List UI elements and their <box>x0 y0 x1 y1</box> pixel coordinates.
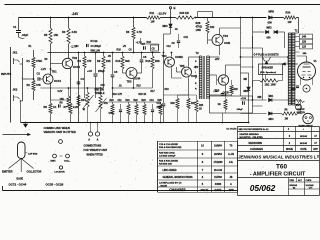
svg-text:MAINS INPUT: MAINS INPUT <box>299 125 314 128</box>
svg-text:C10: C10 <box>101 85 106 87</box>
svg-text:-2V: -2V <box>123 46 127 48</box>
svg-text:05/062: 05/062 <box>250 183 276 193</box>
svg-text:OC44: OC44 <box>73 65 80 69</box>
svg-text:R23: R23 <box>142 100 147 102</box>
svg-text:470Ω: 470Ω <box>196 25 202 29</box>
svg-text:C1: C1 <box>13 25 17 29</box>
svg-text:T60: T60 <box>276 164 287 171</box>
svg-text:OC81D: OC81D <box>175 56 183 59</box>
svg-text:C12: C12 <box>167 46 172 48</box>
svg-text:ISSUE: ISSUE <box>201 188 209 192</box>
svg-text:A.J.N: A.J.N <box>228 153 234 156</box>
svg-text:R23 1K: R23 1K <box>139 94 147 96</box>
svg-text:R13: R13 <box>146 59 151 63</box>
svg-text:O-P PLUG & SOCKETS: O-P PLUG & SOCKETS <box>254 55 280 57</box>
svg-text:C5: C5 <box>114 70 118 74</box>
svg-text:TS: TS <box>230 146 233 148</box>
svg-text:26-9-63: 26-9-63 <box>214 170 223 172</box>
svg-text:3.3K: 3.3K <box>72 30 78 34</box>
svg-text:DATE: DATE <box>300 148 307 151</box>
svg-text:FOR 'VIBRATO' UNIT: FOR 'VIBRATO' UNIT <box>84 149 108 152</box>
svg-text:C17: C17 <box>157 102 162 105</box>
svg-text:C11: C11 <box>118 100 123 102</box>
svg-text:R4: R4 <box>78 59 82 63</box>
svg-text:240: 240 <box>302 36 307 39</box>
svg-text:26/1/63: 26/1/63 <box>299 143 308 145</box>
svg-text:22K: 22K <box>106 59 111 63</box>
svg-text:CHANGES: CHANGES <box>169 188 186 192</box>
svg-text:JK1: JK1 <box>13 51 18 55</box>
svg-text:JENNINGS MUSICAL INDUSTRIES Lᴰ: JENNINGS MUSICAL INDUSTRIES Lᴰ <box>238 155 320 160</box>
svg-text:470: 470 <box>87 59 92 63</box>
svg-text:-1.2V: -1.2V <box>41 69 47 71</box>
svg-text:82K: 82K <box>155 59 160 63</box>
svg-text:SEL: SEL <box>303 53 308 55</box>
svg-text:R12: R12 <box>210 26 215 29</box>
svg-text:4.7K: 4.7K <box>137 30 143 34</box>
svg-text:R33 1W: R33 1W <box>180 11 190 15</box>
svg-text:15/1/63: 15/1/63 <box>300 136 308 138</box>
svg-text:+C3: +C3 <box>87 69 92 73</box>
svg-text:MR3: MR3 <box>163 25 169 28</box>
svg-text:SPEAKER: SPEAKER <box>262 67 274 70</box>
svg-text:- AMPLIFIER CIRCUIT: - AMPLIFIER CIRCUIT <box>250 171 306 177</box>
svg-text:C4 REPLACED BY C6: C4 REPLACED BY C6 <box>159 181 182 184</box>
svg-text:✓: ✓ <box>303 128 305 131</box>
svg-text:E: E <box>174 6 176 10</box>
svg-text:DATE: DATE <box>215 188 222 192</box>
svg-text:100µF: 100µF <box>237 109 244 111</box>
svg-text:470K: 470K <box>36 59 42 63</box>
svg-text:C6: C6 <box>143 55 147 59</box>
svg-text:.04µF: .04µF <box>22 33 29 37</box>
svg-text:R21: R21 <box>126 100 131 102</box>
svg-text:APP: APP <box>228 188 234 192</box>
svg-text:600: 600 <box>268 21 273 25</box>
svg-text:4/4/63: 4/4/63 <box>215 183 222 186</box>
svg-text:CHKD: CHKD <box>306 180 312 182</box>
svg-text:39K: 39K <box>125 59 130 63</box>
svg-text:CAP END: CAP END <box>28 153 38 156</box>
svg-text:COLLECTOR: COLLECTOR <box>27 171 42 174</box>
svg-text:R34 & R36 REMOVED: R34 & R36 REMOVED <box>159 146 182 149</box>
svg-text:CONNECTIONS: CONNECTIONS <box>84 145 102 148</box>
svg-text:- ISSUE: - ISSUE <box>159 186 167 188</box>
svg-text:-24V: -24V <box>72 12 80 16</box>
svg-text:10W: 10W <box>196 28 202 32</box>
svg-text:15Ω: 15Ω <box>265 84 270 87</box>
svg-text:VIBRATO UNIT IS FITTED: VIBRATO UNIT IS FITTED <box>44 130 76 134</box>
svg-text:R34 & R35 ADDED: R34 & R35 ADDED <box>159 159 179 162</box>
svg-text:JK2: JK2 <box>13 88 18 92</box>
svg-text:25µF: 25µF <box>157 107 163 109</box>
svg-text:-22V: -22V <box>215 59 220 61</box>
svg-text:MB: MB <box>258 96 262 99</box>
svg-text:R4 1Ω: R4 1Ω <box>91 40 98 43</box>
svg-text:WHEN FITTED: WHEN FITTED <box>87 154 104 157</box>
svg-text:C2: C2 <box>37 72 41 76</box>
svg-text:R7: R7 <box>64 105 68 109</box>
svg-text:R32 WAS 100Ω: R32 WAS 100Ω <box>159 151 175 154</box>
svg-text:17/12/63: 17/12/63 <box>214 162 224 164</box>
svg-text:250µF: 250µF <box>98 70 105 73</box>
svg-text:C3 250µF: C3 250µF <box>91 45 102 48</box>
svg-text:TR3: TR3 <box>127 80 132 84</box>
svg-text:C15 & C16 ADDED: C15 & C16 ADDED <box>159 143 179 146</box>
svg-text:R29: R29 <box>234 89 239 91</box>
svg-text:MR: MR <box>244 79 248 81</box>
svg-text:TR1: TR1 <box>52 70 58 74</box>
svg-text:R30: R30 <box>286 11 291 15</box>
svg-text:R8: R8 <box>44 105 48 109</box>
svg-text:MR1: MR1 <box>269 96 275 98</box>
svg-text:1W: 1W <box>288 20 292 24</box>
svg-text:1K: 1K <box>53 105 56 109</box>
svg-text:TREBLE: TREBLE <box>95 92 105 95</box>
svg-text:R15: R15 <box>137 86 142 88</box>
svg-text:R3: R3 <box>62 30 66 34</box>
svg-text:R32: R32 <box>296 105 301 107</box>
svg-text:R34: R34 <box>81 98 86 102</box>
svg-text:1Ω: 1Ω <box>218 104 221 106</box>
svg-text:16/9/64: 16/9/64 <box>214 145 222 148</box>
svg-text:R26: R26 <box>171 103 176 105</box>
svg-text:10K: 10K <box>54 33 59 37</box>
svg-text:R19 4.7K: R19 4.7K <box>113 93 123 96</box>
svg-text:OC81: OC81 <box>224 42 231 45</box>
svg-text:C13: C13 <box>150 100 155 102</box>
svg-text:R1: R1 <box>27 59 31 63</box>
svg-text:EMIT.: EMIT. <box>51 161 57 163</box>
svg-text:R17: R17 <box>151 91 156 93</box>
svg-text:MR4: MR4 <box>269 118 275 121</box>
svg-text:R6: R6 <box>126 30 130 34</box>
svg-text:R5: R5 <box>44 33 48 37</box>
svg-text:BASE: BASE <box>17 178 24 181</box>
svg-text:LINK ADDED: LINK ADDED <box>163 169 177 172</box>
svg-text:2.2K: 2.2K <box>73 105 79 109</box>
svg-text:15/7/63: 15/7/63 <box>214 177 222 179</box>
svg-text:SWITCH: SWITCH <box>297 112 306 114</box>
svg-text:-11V: -11V <box>194 67 199 69</box>
svg-text:-8V: -8V <box>108 56 112 58</box>
svg-text:J.N.: J.N. <box>229 162 234 164</box>
svg-text:R20: R20 <box>110 100 115 102</box>
svg-text:10W: 10W <box>271 84 277 87</box>
svg-text:R18: R18 <box>165 89 170 91</box>
svg-text:APP: APP <box>313 148 318 151</box>
svg-text:29/4/64: 29/4/64 <box>214 153 222 156</box>
svg-text:R24: R24 <box>199 104 204 107</box>
svg-text:DRN: DRN <box>290 180 295 182</box>
svg-text:GENERAL MODIFICATIONS: GENERAL MODIFICATIONS <box>163 176 193 179</box>
svg-text:REDRAWN: REDRAWN <box>249 141 263 145</box>
svg-text:OC72 - OC44: OC72 - OC44 <box>9 183 27 187</box>
svg-text:TR5: TR5 <box>180 64 185 68</box>
svg-text:47K: 47K <box>36 83 41 87</box>
svg-text:C4: C4 <box>81 77 85 81</box>
svg-text:MR2: MR2 <box>267 27 273 30</box>
svg-text:C12: C12 <box>184 36 189 39</box>
svg-text:0.2V: 0.2V <box>58 91 63 93</box>
svg-text:C20: C20 <box>292 89 297 91</box>
svg-text:SEE VOLTS/CURRENTS No 12: SEE VOLTS/CURRENTS No 12 <box>239 129 270 131</box>
svg-text:R4 WAS 33K: R4 WAS 33K <box>159 163 172 166</box>
svg-text:MOUNTED - DELETED: MOUNTED - DELETED <box>240 137 264 139</box>
svg-text:1K: 1K <box>199 109 202 111</box>
svg-text:C2 WAS 1000µF: C2 WAS 1000µF <box>159 155 176 158</box>
svg-text:OC44: OC44 <box>134 78 141 81</box>
svg-text:R28: R28 <box>196 21 201 25</box>
svg-text:OC44: OC44 <box>54 79 61 83</box>
svg-text:DC VOLTS: DC VOLTS <box>227 129 238 131</box>
svg-text:-12.5V: -12.5V <box>158 12 167 16</box>
svg-text:R10: R10 <box>117 49 122 52</box>
svg-text:EMITTER: EMITTER <box>2 171 13 174</box>
svg-text:LOCATOR: LOCATOR <box>55 171 66 174</box>
svg-text:COLL.: COLL. <box>64 161 71 163</box>
svg-text:MR1: MR1 <box>244 91 250 93</box>
svg-text:1W: 1W <box>151 20 155 24</box>
svg-text:HEATER WINDING: HEATER WINDING <box>240 133 259 136</box>
svg-text:INPUTS: INPUTS <box>1 72 11 76</box>
svg-text:R11: R11 <box>150 11 155 15</box>
svg-text:600: 600 <box>267 37 272 40</box>
svg-text:OC35 - OC28: OC35 - OC28 <box>46 183 64 187</box>
svg-text:A: A <box>88 139 90 142</box>
svg-text:R10: R10 <box>116 59 121 63</box>
svg-text:220: 220 <box>302 41 307 44</box>
svg-text:ISSUE: ISSUE <box>286 149 293 151</box>
svg-text:A: A <box>97 139 99 142</box>
svg-text:MR5: MR5 <box>269 10 275 14</box>
svg-text:JB: JB <box>230 177 233 179</box>
svg-text:47K: 47K <box>104 102 109 105</box>
svg-text:TR4: TR4 <box>162 54 167 58</box>
svg-text:TR4: TR4 <box>223 34 228 38</box>
svg-text:ON/OFF: ON/OFF <box>297 109 306 111</box>
svg-text:CHANGES: CHANGES <box>250 147 263 151</box>
svg-text:R22: R22 <box>134 100 139 102</box>
svg-text:R9: R9 <box>97 59 101 63</box>
svg-text:COMMS LINK WHEN: COMMS LINK WHEN <box>44 126 70 130</box>
svg-text:R2: R2 <box>27 83 31 87</box>
svg-text:R13: R13 <box>147 41 152 44</box>
svg-text:115: 115 <box>302 46 307 49</box>
